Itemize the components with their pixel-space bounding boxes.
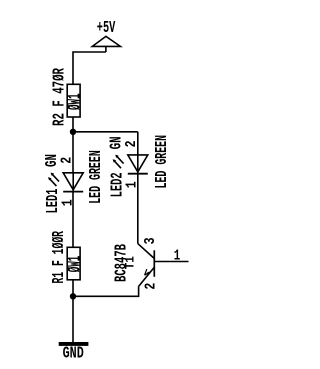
transistor T1 emitter diagonal bbox=[139, 267, 155, 286]
resistor R1 body bbox=[67, 247, 80, 279]
wire down to LED2 bbox=[137, 132, 139, 155]
transistor T1 emitter arrow bbox=[145, 269, 151, 275]
LED LED1 symbol bbox=[48, 173, 83, 192]
svg-text:1: 1 bbox=[174, 248, 181, 265]
svg-text:GND: GND bbox=[63, 344, 84, 363]
wire LED2 to transistor collector bbox=[137, 174, 139, 244]
wire junction to transistor emitter bbox=[73, 286, 139, 296]
svg-text:1: 1 bbox=[60, 199, 77, 206]
svg-text:2: 2 bbox=[143, 283, 160, 290]
supply +5V bbox=[92, 36, 120, 52]
wire LED1 to R1 bbox=[72, 192, 74, 248]
svg-text:+5V: +5V bbox=[97, 18, 116, 37]
wire junction to LED2 column bbox=[73, 131, 138, 133]
svg-text:3: 3 bbox=[142, 237, 159, 244]
svg-text:T1: T1 bbox=[122, 256, 137, 269]
svg-text:ØW1: ØW1 bbox=[66, 93, 86, 110]
resistor R2 body bbox=[67, 84, 80, 117]
svg-text:ØW1: ØW1 bbox=[66, 256, 86, 273]
svg-text:2: 2 bbox=[123, 140, 140, 147]
wire R2 to LED1 bbox=[72, 117, 74, 173]
wire from +5V to R2 bbox=[73, 52, 106, 84]
svg-text:2: 2 bbox=[59, 157, 76, 164]
LED LED2 symbol bbox=[113, 155, 148, 174]
svg-text:LED GREEN: LED GREEN bbox=[86, 150, 105, 204]
ground bar bbox=[59, 342, 89, 346]
node junction dot (R2 / LED1 / LED2) bbox=[70, 129, 76, 135]
svg-text:LED GREEN: LED GREEN bbox=[152, 135, 171, 189]
svg-text:1: 1 bbox=[124, 181, 141, 188]
transistor T1 collector diagonal bbox=[138, 244, 154, 259]
node junction dot (R1 / emitter / GND) bbox=[70, 293, 76, 299]
transistor T1 base lead bbox=[154, 261, 188, 263]
transistor T1 base bar bbox=[153, 250, 155, 276]
wire R1 to GND bbox=[72, 280, 74, 342]
